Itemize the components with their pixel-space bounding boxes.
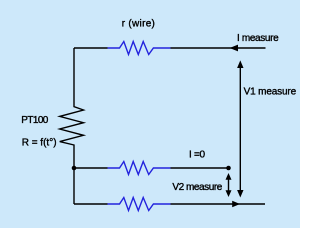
- svg-text:V2 measure: V2 measure: [172, 182, 222, 193]
- svg-text:I measure: I measure: [237, 33, 279, 44]
- svg-text:r (wire): r (wire): [122, 19, 156, 30]
- svg-text:PT100: PT100: [21, 115, 49, 126]
- svg-text:I =0: I =0: [189, 150, 205, 161]
- svg-text:R = f(t°): R = f(t°): [22, 138, 57, 149]
- svg-text:V1 measure: V1 measure: [244, 87, 297, 98]
